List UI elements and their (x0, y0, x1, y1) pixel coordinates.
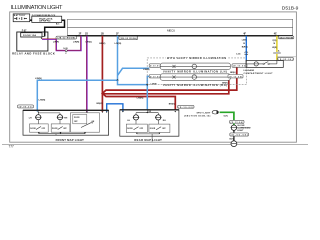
wire light blue vanity row2 and rear map light (147, 76, 149, 110)
rear entry pin marks (122, 111, 176, 112)
svg-text:DOOR: DOOR (30, 128, 36, 130)
connector label (JB-02 ROOM) (56, 36, 77, 39)
svg-text:W(R): W(R) (272, 47, 277, 49)
svg-text:D-13-03: D-13-03 (150, 76, 160, 78)
black wire to ground (233, 136, 235, 141)
svg-text:SPOT LIGHT: SPOT LIGHT (197, 112, 212, 114)
svg-text:L/W(N): L/W(N) (143, 69, 150, 71)
bus box thick bottom edge (67, 35, 292, 37)
svg-text:B(Y): B(Y) (230, 138, 234, 140)
wire light blue down-right to rear feed (118, 80, 148, 84)
connector label (D-13-02) (232, 64, 247, 68)
svg-text:WITH VANITY MIRROR ILLUMINATIO: WITH VANITY MIRROR ILLUMINATION (167, 57, 226, 60)
svg-text:RH: RH (64, 117, 68, 119)
junction block bus box (67, 19, 292, 35)
connector label (D-13-04) (230, 120, 244, 124)
svg-text:Y(R): Y(R) (272, 40, 276, 42)
connector label (JB-02 R02A) (119, 36, 138, 40)
svg-text:LUGGAGE: LUGGAGE (244, 69, 255, 72)
svg-text:1B: 1B (101, 33, 104, 36)
wire battery to main fuse (30, 19, 32, 21)
svg-text:L(W): L(W) (242, 40, 247, 42)
svg-text:FRONT MAP LIGHT: FRONT MAP LIGHT (56, 138, 85, 142)
svg-text:(JB-01 ROOM): (JB-01 ROOM) (279, 37, 293, 39)
svg-text:LH: LH (29, 117, 32, 119)
svg-text:RELAY AND FUSE BLOCK: RELAY AND FUSE BLOCK (12, 52, 55, 56)
front door switch unit (70, 113, 99, 132)
svg-text:MECU: MECU (167, 28, 175, 32)
connector label (D-10-02) (178, 105, 195, 108)
svg-text:VANITY MIRROR ILLUMINATION (LH: VANITY MIRROR ILLUMINATION (LH) (163, 71, 227, 74)
wire dark red branch to vanity row1 right (102, 67, 236, 93)
relay and fuse block box (17, 32, 48, 51)
svg-text:DOOR: DOOR (150, 128, 156, 130)
fuse MAIN 200A (39, 17, 53, 21)
svg-text:BR(K): BR(K) (99, 43, 105, 45)
front entry pin marks (37, 112, 107, 113)
svg-text:ILLUMINATION LIGHT: ILLUMINATION LIGHT (11, 5, 64, 11)
svg-text:D-13-01: D-13-01 (150, 66, 160, 68)
battery B1 (13, 14, 30, 22)
vanity mirror illumination LH unit (160, 63, 230, 70)
wire green to glove light (220, 112, 234, 120)
connector label (D-05-08) (230, 133, 249, 137)
svg-text:L/W(N): L/W(N) (39, 99, 46, 101)
svg-text:(D-05-01): (D-05-01) (19, 107, 33, 109)
inline connector on yellow (273, 52, 281, 53)
glove compartment lamp (230, 125, 237, 130)
connector label (D-13-03) (149, 75, 160, 79)
connector label (D-13-04) (228, 75, 243, 79)
svg-text:VANITY MIRROR ILLUMINATION (RH: VANITY MIRROR ILLUMINATION (RH) (163, 84, 227, 87)
front switch LH (30, 124, 49, 132)
wire yellow lower stub (276, 54, 278, 61)
svg-text:L/R(R): L/R(R) (73, 42, 80, 44)
svg-text:COMPARTMENT LIGHT: COMPARTMENT LIGHT (244, 72, 274, 75)
wire dark red branch to rear map light (102, 93, 175, 110)
svg-text:BR(K): BR(K) (97, 103, 103, 105)
svg-text:L/R(P): L/R(P) (53, 41, 59, 43)
svg-text:L/W(N): L/W(N) (115, 43, 122, 45)
front map light box (23, 110, 109, 135)
wire yellow 4E to luggage light (276, 36, 278, 52)
lamp front LH (35, 115, 42, 120)
svg-text:1D: 1D (85, 33, 88, 36)
svg-text:BR(H): BR(H) (230, 72, 236, 74)
wire dark red 1B down to front map light (101, 36, 103, 112)
lamp rear LH (133, 115, 140, 120)
junction dot (146, 84, 148, 86)
connector label (D-05-01) (18, 105, 34, 109)
svg-text:COMPARTMENT: COMPARTMENT (237, 126, 251, 129)
rear internal wires (136, 111, 158, 142)
svg-text:L/R(G): L/R(G) (86, 42, 93, 44)
page border second bottom line (2, 144, 308, 146)
svg-text:G(Y): G(Y) (224, 116, 229, 118)
rear internal bottom wires (137, 133, 160, 137)
junction dot (117, 79, 119, 81)
wire dark red branch to vanity row2 right (102, 78, 228, 94)
wire light blue to vanity row1 (118, 68, 150, 75)
lamp front RH (57, 115, 64, 120)
dashed option box WITH VANITY MIRROR ILLUMINATION (147, 58, 246, 85)
rear switch RH (149, 124, 170, 132)
page border frame (10, 12, 297, 142)
svg-text:DOOR: DOOR (127, 128, 133, 130)
svg-text:LIGHT: LIGHT (237, 130, 244, 132)
svg-text:REAR MAP LIGHT: REAR MAP LIGHT (134, 138, 162, 142)
wire light blue left to front map light (37, 80, 117, 111)
svg-text:D51B-9: D51B-9 (282, 6, 299, 12)
svg-text:L/W(N): L/W(N) (137, 98, 144, 100)
svg-text:DOOR: DOOR (74, 117, 80, 119)
svg-text:BR(K): BR(K) (169, 103, 175, 105)
wire purple 1D to front map light (86, 36, 88, 112)
vanity mirror illumination RH unit (160, 74, 230, 81)
svg-text:777: 777 (9, 144, 15, 148)
svg-text:(D-13-04): (D-13-04) (229, 75, 242, 78)
connector label (D-05-06) (278, 58, 294, 62)
fuse ROOM 15A (21, 33, 45, 40)
red junction (101, 92, 104, 95)
svg-text:(D-13-02): (D-13-02) (233, 66, 246, 68)
svg-text:(SECTION D51B-15): (SECTION D51B-15) (184, 115, 211, 117)
svg-text:(D-13-04): (D-13-04) (231, 121, 244, 124)
svg-text:ROOM 15A: ROOM 15A (23, 34, 36, 37)
rear switch LH (126, 124, 147, 132)
wire purple from room fuse (42, 38, 56, 40)
svg-text:(D-10-02): (D-10-02) (179, 107, 194, 109)
connector to diagnosis (212, 110, 218, 114)
svg-text:(JB-02 R02A): (JB-02 R02A) (120, 37, 137, 40)
connector label (D-13-01) (149, 64, 160, 68)
wire purple U to bus pin 2F (56, 36, 81, 51)
luggage compartment light box (246, 60, 283, 67)
lamp rear RH (155, 115, 162, 120)
svg-text:B(RG): B(RG) (242, 46, 248, 48)
wire strong blue front-rear link (107, 104, 123, 112)
wire strong blue 4F to luggage light (245, 36, 247, 61)
front internal bottom wires (39, 132, 85, 135)
connector label (JB-01 ROOM) (278, 36, 293, 39)
svg-text:4E: 4E (274, 33, 277, 36)
wire main fuse to room fuse (thick black) (45, 20, 65, 36)
rear map light box (120, 110, 179, 136)
svg-text:DOOR: DOOR (52, 128, 58, 130)
wire light blue 1F down (117, 36, 119, 81)
svg-text:BATTERY: BATTERY (14, 14, 26, 17)
leader line to border (277, 56, 296, 58)
wire green stub (233, 124, 235, 126)
inline connector on blue (245, 52, 248, 55)
svg-text:(JB-02 ROOM): (JB-02 ROOM) (57, 38, 75, 40)
splice C (65, 50, 67, 52)
front switch RH (51, 124, 70, 132)
front lamp internal wires (38, 112, 87, 124)
black wire below glove lamp (233, 130, 235, 133)
ground point (231, 141, 237, 147)
